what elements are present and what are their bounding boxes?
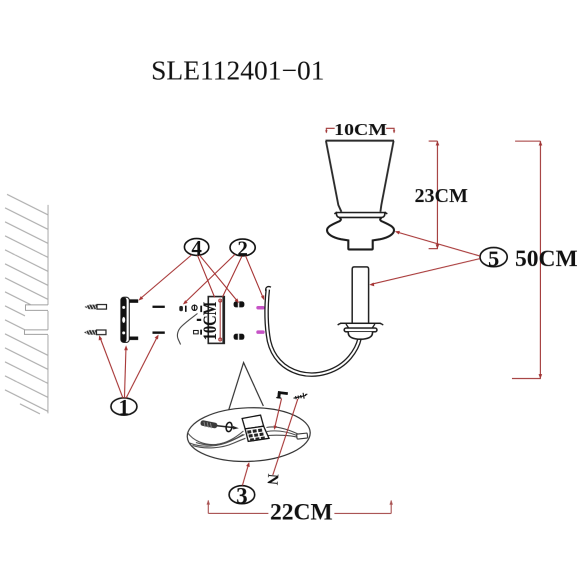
- screw with ring: [225, 422, 238, 432]
- svg-text:10CM: 10CM: [334, 120, 387, 139]
- leader screw -> N: [273, 399, 298, 475]
- wires (right): [266, 427, 297, 437]
- magnifier cone: [229, 363, 264, 410]
- lamp shade (trapezoid): [325, 141, 394, 212]
- wires (left): [187, 431, 245, 448]
- svg-text:23CM: 23CM: [415, 185, 468, 207]
- leader 4 -> bracket stud: [140, 255, 192, 299]
- set screw dash (top): [152, 306, 164, 308]
- svg-text:10CM: 10CM: [199, 301, 220, 340]
- mounting bracket: [121, 297, 138, 342]
- dim 23CM (shade height): [429, 141, 438, 249]
- wall drill hole (top): [25, 305, 48, 311]
- small screw pair (lower): [194, 330, 202, 335]
- wire connector: [297, 433, 308, 439]
- anchor screw (bottom): [84, 330, 106, 335]
- small screws group (side view): [179, 305, 202, 313]
- detail ellipse: [186, 406, 311, 464]
- callout circle 2: [230, 236, 255, 260]
- screwdriver: [200, 420, 233, 429]
- candle tube: [352, 267, 368, 323]
- wall drill hole (bottom): [24, 330, 48, 335]
- cup: [348, 332, 372, 339]
- svg-text:5: 5: [488, 246, 499, 271]
- leader 1 -> bracket: [124, 347, 126, 398]
- plate height dim 10CM (red): [219, 300, 221, 341]
- leader 2 -> plate: [222, 256, 242, 297]
- terminal block: [242, 415, 269, 442]
- set screw dash (bottom): [152, 331, 164, 333]
- arm end cap: [266, 287, 271, 291]
- stud screw (top right of plate): [234, 301, 245, 307]
- leader 2 -> arm: [245, 256, 263, 298]
- callout circle 1: [111, 394, 137, 419]
- svg-text:1: 1: [118, 394, 129, 419]
- leader 1 -> anchor screw: [100, 337, 123, 398]
- lamp arm (curved tube): [266, 287, 360, 375]
- candle collar / cup: [338, 323, 384, 339]
- leader 1 -> set screw: [126, 336, 158, 398]
- leader 5 -> candle: [372, 259, 481, 285]
- callout circle 4: [184, 236, 208, 260]
- leader 4 -> stud screw: [199, 255, 237, 301]
- brim: [340, 322, 381, 324]
- ground wire: [177, 313, 197, 344]
- leader 5 -> shade: [397, 232, 480, 256]
- pink connector (top): [256, 306, 264, 310]
- leader 4 -> plate: [197, 255, 214, 297]
- ring: [344, 328, 377, 332]
- dim 50CM (overall height): [512, 141, 541, 378]
- svg-text:50CM: 50CM: [515, 246, 578, 272]
- small dash: [197, 319, 201, 321]
- svg-text:N: N: [263, 473, 281, 486]
- pink connector (bottom): [256, 330, 264, 334]
- label screw glyph: [294, 393, 308, 400]
- dim 10CM (shade top width): [326, 128, 394, 132]
- wall (hatched section): [5, 194, 48, 414]
- leader L -> wire: [275, 398, 282, 428]
- dim 22CM (bottom width): [208, 500, 391, 513]
- svg-text:SLE112401−01: SLE112401−01: [151, 54, 324, 85]
- callout circle 5: [480, 246, 507, 271]
- mounting plate with 10CM: [199, 297, 224, 344]
- stud screw (bottom right of plate): [234, 334, 245, 340]
- svg-text:3: 3: [236, 483, 248, 508]
- callout circle 3: [229, 483, 255, 508]
- label L (rotated): [276, 391, 288, 399]
- leader 2 -> small screws: [184, 254, 235, 303]
- shade bottom bulge: [327, 218, 394, 250]
- shade neck rings: [334, 212, 387, 217]
- leader 3 -> detail ellipse: [242, 464, 248, 486]
- anchor screw (top): [84, 304, 106, 309]
- svg-text:22CM: 22CM: [270, 499, 333, 525]
